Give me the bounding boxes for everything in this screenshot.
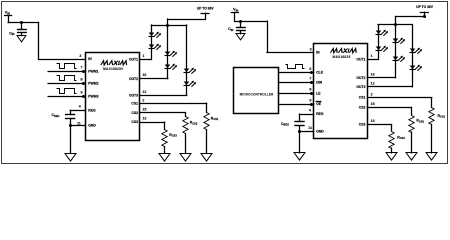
- wire OUT1 pin 1 (right): [368, 59, 379, 61]
- wire CS1 pin 2 (right): [368, 97, 432, 99]
- ground below RCS2 (right): [406, 153, 417, 161]
- wire CS1 pin 2 (left): [140, 103, 207, 105]
- junction CREG-GND (right): [298, 130, 301, 133]
- ground below GND (right): [294, 153, 305, 161]
- ground below RCS3 (left): [159, 154, 170, 162]
- wire VIN bus (right): [235, 21, 267, 23]
- wire OUT2 pin 16 (right): [368, 77, 396, 79]
- PWM2 input waveform, pin 8: [48, 83, 85, 85]
- svg-text:MAX16825: MAX16825: [333, 55, 351, 59]
- resistor RCS1 (right): [431, 98, 433, 108]
- svg-text:13: 13: [142, 117, 146, 121]
- rail wire (right): [396, 16, 425, 18]
- svg-text:IN: IN: [316, 51, 320, 55]
- wire OUT1 pin 1 (left): [140, 59, 152, 61]
- svg-text:8: 8: [81, 78, 83, 82]
- LED string 3 wire (left OUT3): [186, 25, 188, 95]
- LED D6: [184, 81, 197, 87]
- U2 MAXIM logo: [330, 49, 357, 53]
- junction CREG-GND (left): [69, 124, 72, 127]
- svg-text:UP TO 36V: UP TO 36V: [197, 6, 215, 10]
- svg-text:PWM1: PWM1: [88, 69, 98, 73]
- svg-text:CLK: CLK: [316, 71, 324, 75]
- wire OUT2 pin 16 (left): [140, 78, 168, 80]
- svg-text:15: 15: [371, 102, 375, 106]
- svg-text:12: 12: [371, 81, 375, 85]
- PWM3 input waveform, pin 9: [48, 96, 85, 98]
- svg-text:OUT2: OUT2: [129, 77, 138, 81]
- overline on OE: [316, 101, 320, 103]
- resistor RCS2 (left): [185, 113, 187, 117]
- svg-text:6: 6: [309, 67, 311, 71]
- svg-text:13: 13: [371, 119, 375, 123]
- LED D11: [410, 48, 423, 54]
- wire OE pin 9: [279, 104, 314, 106]
- svg-text:GND: GND: [88, 124, 96, 128]
- IC U2 MAX16825 box: [314, 44, 368, 139]
- LED D9: [393, 38, 406, 44]
- svg-text:GND: GND: [316, 129, 324, 133]
- svg-text:CS2: CS2: [359, 105, 366, 109]
- svg-text:CS3: CS3: [131, 120, 138, 124]
- svg-text:11: 11: [77, 122, 81, 126]
- svg-text:8: 8: [309, 87, 311, 91]
- wire CS2 pin 15 (right): [368, 107, 412, 109]
- svg-text:4: 4: [79, 105, 81, 109]
- svg-text:4: 4: [309, 108, 311, 112]
- svg-text:15: 15: [142, 107, 146, 111]
- svg-text:7: 7: [309, 77, 311, 81]
- svg-text:1: 1: [142, 54, 144, 58]
- LED bus (left): [151, 25, 186, 27]
- svg-text:OUT3: OUT3: [129, 94, 138, 98]
- svg-text:PWM2: PWM2: [88, 82, 98, 86]
- U1 MAXIM logo: [101, 61, 128, 65]
- wire OUT3 pin 12 (left): [140, 95, 187, 97]
- svg-text:12: 12: [142, 90, 146, 94]
- svg-text:11: 11: [308, 126, 312, 130]
- ground below RCS1 (right): [426, 153, 437, 161]
- wire OUT3 pin 12 (right): [368, 86, 413, 88]
- svg-text:CS2: CS2: [131, 111, 138, 115]
- LED string C wire (right OUT3): [412, 25, 414, 87]
- capacitor CREG (left): [70, 110, 72, 114]
- junction bus-string2 (left): [166, 24, 169, 27]
- REG pin 4 wire (right): [300, 114, 314, 116]
- wire to IN pin 3 (right): [267, 21, 269, 52]
- microcontroller box: [234, 68, 279, 114]
- ground below RCS3 (right): [386, 153, 397, 161]
- LED D8: [376, 46, 389, 52]
- svg-text:UP TO 36V: UP TO 36V: [416, 5, 434, 9]
- wire VIN bus (left): [8, 22, 38, 24]
- LED D4: [165, 64, 178, 70]
- resistor RCS2 (right): [411, 107, 413, 115]
- rail wire (left): [168, 19, 205, 21]
- ground below GND (left): [65, 154, 76, 162]
- svg-text:OE: OE: [316, 102, 322, 106]
- LED bus (right): [378, 24, 412, 26]
- svg-text:OUT2: OUT2: [356, 76, 365, 80]
- svg-text:DIN: DIN: [316, 81, 322, 85]
- GND pin 11 wire (left): [70, 125, 85, 127]
- LED string B wire (right OUT2): [395, 25, 397, 78]
- junction bus-stringB (right): [394, 23, 397, 26]
- LED D3: [165, 51, 178, 57]
- svg-text:2: 2: [142, 99, 144, 103]
- svg-text:CS1: CS1: [359, 96, 366, 100]
- svg-text:OUT1: OUT1: [129, 58, 138, 62]
- GND pin 11 wire (right): [300, 131, 314, 133]
- svg-text:LE: LE: [316, 91, 321, 95]
- LED D5: [184, 68, 197, 74]
- svg-text:CS3: CS3: [359, 123, 366, 127]
- junction rail (right): [423, 15, 426, 18]
- LED string A wire (right OUT1): [378, 25, 380, 60]
- svg-text:16: 16: [142, 73, 146, 77]
- wire CLK pin 6: [279, 72, 314, 74]
- svg-text:MAX16823V: MAX16823V: [103, 67, 124, 71]
- capacitor CREG (right): [299, 114, 301, 121]
- wire CS2 pin 15 (left): [140, 112, 186, 114]
- svg-text:MICROCONTROLLER: MICROCONTROLLER: [240, 93, 274, 97]
- svg-text:OUT3: OUT3: [356, 85, 365, 89]
- svg-text:9: 9: [309, 99, 311, 103]
- LED D7: [376, 30, 389, 36]
- IC U1 MAX16823 box: [86, 53, 140, 141]
- ground below RCS2 (left): [180, 154, 191, 162]
- outer frame: [2, 2, 448, 164]
- svg-text:16: 16: [371, 72, 375, 76]
- ground below CIN (right): [236, 34, 245, 40]
- REG pin 4 wire (left): [70, 110, 85, 112]
- svg-text:1: 1: [371, 54, 373, 58]
- svg-text:IN: IN: [88, 57, 92, 61]
- wire to IN pin 3 (left): [38, 23, 40, 60]
- svg-text:7: 7: [81, 65, 83, 69]
- svg-text:REG: REG: [316, 112, 324, 116]
- LED string 1 wire (left OUT1): [151, 25, 153, 60]
- svg-text:REG: REG: [88, 109, 96, 113]
- LED D12: [410, 65, 423, 71]
- LED D1: [149, 32, 162, 38]
- wire CS3 pin 13 (right): [368, 124, 392, 126]
- clock waveform symbol: [286, 65, 305, 69]
- svg-text:9: 9: [81, 91, 83, 95]
- PWM1 input waveform, pin 7: [48, 71, 85, 73]
- ground below RCS1 (left): [201, 154, 212, 162]
- resistor RCS3 (left): [164, 122, 166, 130]
- LED D10: [393, 56, 406, 62]
- resistor RCS3 (right): [391, 125, 393, 132]
- svg-text:3: 3: [310, 48, 312, 52]
- junction CIN (right): [239, 20, 242, 23]
- svg-text:CS1: CS1: [131, 101, 138, 105]
- resistor RCS1 (left): [206, 103, 208, 112]
- LED D2: [149, 44, 162, 50]
- svg-text:2: 2: [371, 92, 373, 96]
- ground below CIN (left): [17, 36, 26, 42]
- svg-text:OUT1: OUT1: [356, 57, 365, 61]
- svg-text:3: 3: [79, 54, 81, 58]
- wire LE pin 8: [279, 93, 314, 95]
- svg-text:PWM3: PWM3: [88, 95, 98, 99]
- LED string 2 wire (left OUT2): [167, 25, 169, 79]
- junction CIN (left): [20, 21, 23, 24]
- wire CS3 pin 13 (left): [140, 122, 165, 124]
- wire DIN pin 7: [279, 82, 314, 84]
